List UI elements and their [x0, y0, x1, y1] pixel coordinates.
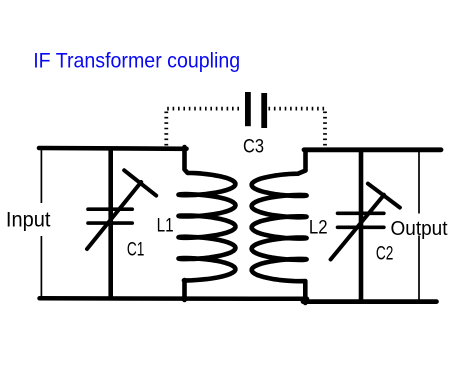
wire top-right — [304, 147, 441, 152]
capacitor C1 — [87, 170, 156, 249]
svg-text:C1: C1 — [127, 240, 144, 261]
svg-text:Output: Output — [391, 218, 448, 240]
inductor L2 — [252, 151, 307, 303]
wire input terminal — [40, 149, 42, 298]
svg-text:IF Transformer coupling: IF Transformer coupling — [33, 49, 240, 73]
capacitor C2 — [331, 184, 400, 260]
wire dotted C3 left — [166, 109, 241, 146]
capacitor C3 — [248, 92, 264, 128]
svg-text:C3: C3 — [243, 137, 264, 158]
svg-text:C2: C2 — [376, 244, 394, 265]
inductor L1 — [179, 147, 236, 300]
svg-text:L2: L2 — [309, 218, 328, 239]
wire output terminal — [418, 151, 420, 301]
wire C2 branch — [359, 149, 364, 303]
wire bottom-right — [303, 299, 437, 304]
wire bottom-left — [40, 296, 308, 301]
wire top-left — [39, 146, 187, 151]
svg-text:Input: Input — [6, 208, 51, 231]
wire dotted C3 right — [269, 109, 326, 147]
svg-text:L1: L1 — [157, 215, 174, 236]
wire C1 branch — [108, 147, 113, 300]
